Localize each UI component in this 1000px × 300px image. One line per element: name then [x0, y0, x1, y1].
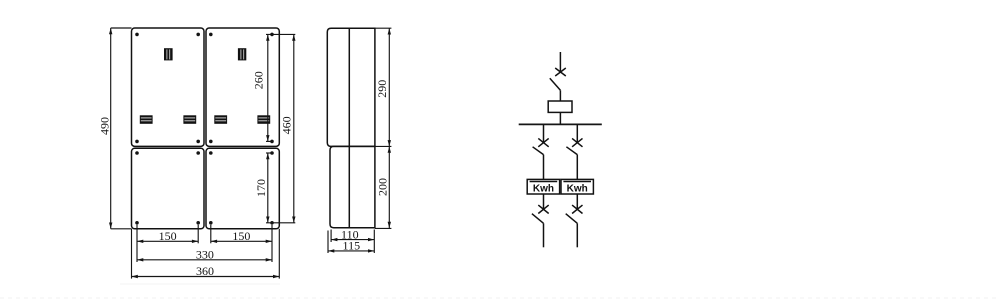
switch blade branch 2 lower: [566, 214, 578, 224]
wire branch 2: [576, 124, 578, 142]
side view lower inner line: [348, 146, 350, 227]
screws top-left panel: [135, 33, 200, 144]
faint scan artifact line: [120, 283, 280, 285]
svg-text:200: 200: [375, 178, 389, 196]
side view upper inner line: [348, 28, 350, 146]
door panel top-right: [206, 28, 279, 146]
screws bottom-right panel: [209, 151, 274, 224]
svg-text:330: 330: [196, 247, 214, 261]
vent slot 2: [183, 115, 196, 124]
side view upper section: [327, 28, 375, 146]
svg-text:150: 150: [159, 229, 177, 243]
energy meter Kwh 2: [561, 179, 593, 194]
dimension 460: [266, 34, 296, 222]
faint dotted bottom edge: [0, 297, 1000, 299]
dimension 260: [252, 34, 296, 141]
door panel top-left: [132, 28, 205, 146]
svg-text:490: 490: [97, 117, 111, 135]
svg-text:170: 170: [254, 179, 268, 197]
extension lines under screws: [136, 225, 138, 262]
svg-text:Kwh: Kwh: [533, 183, 554, 194]
svg-text:Kwh: Kwh: [567, 183, 588, 194]
switch blade main: [550, 78, 561, 90]
switch blade branch 1 lower: [532, 214, 544, 224]
wire incoming: [559, 52, 561, 72]
svg-text:360: 360: [196, 264, 214, 278]
vent slot 4: [257, 115, 270, 124]
energy meter Kwh 1: [527, 179, 559, 194]
dimension 170: [254, 153, 274, 223]
breaker mark main: [555, 68, 566, 76]
wire outgoing branch 1: [543, 223, 545, 247]
wire: [543, 194, 545, 209]
dimension 290: [375, 28, 392, 146]
wire branch 1: [543, 124, 545, 142]
main breaker box: [548, 101, 572, 112]
dimension 115: [328, 231, 374, 254]
meter viewing window left: [164, 48, 173, 60]
side view lower section: [330, 146, 375, 227]
dimension 360: [132, 264, 280, 278]
dimension 330: [137, 247, 272, 261]
dimension 110: [331, 228, 374, 253]
vent slot 1: [140, 115, 153, 124]
wire: [559, 90, 561, 101]
dimension 150 right: [211, 229, 272, 243]
wire: [576, 194, 578, 209]
switch blade branch 2 upper: [566, 147, 577, 155]
svg-text:290: 290: [375, 80, 389, 98]
breaker mark branch 2 lower: [572, 205, 582, 213]
dimension 200: [375, 146, 392, 228]
meter viewing window right: [238, 48, 246, 60]
svg-text:460: 460: [279, 116, 293, 134]
wire outgoing branch 2: [576, 223, 578, 247]
door panel bottom-right: [206, 148, 279, 229]
breaker mark branch 1 lower: [538, 205, 548, 213]
wire: [576, 155, 578, 180]
screws bottom-left panel: [135, 151, 200, 224]
door panel bottom-left: [132, 148, 205, 229]
bus bar: [519, 123, 602, 125]
breaker mark branch 2 upper: [572, 138, 582, 146]
svg-text:115: 115: [343, 239, 361, 253]
switch blade branch 1 upper: [533, 147, 544, 155]
breaker mark branch 1 upper: [538, 138, 548, 146]
wire: [543, 155, 545, 180]
svg-text:260: 260: [252, 71, 266, 89]
dimension 490: [97, 28, 131, 229]
screws top-right panel: [209, 33, 274, 144]
dimension 150 left: [137, 229, 198, 243]
wire: [559, 112, 561, 124]
vent slot 3: [214, 115, 227, 124]
svg-text:150: 150: [232, 229, 250, 243]
